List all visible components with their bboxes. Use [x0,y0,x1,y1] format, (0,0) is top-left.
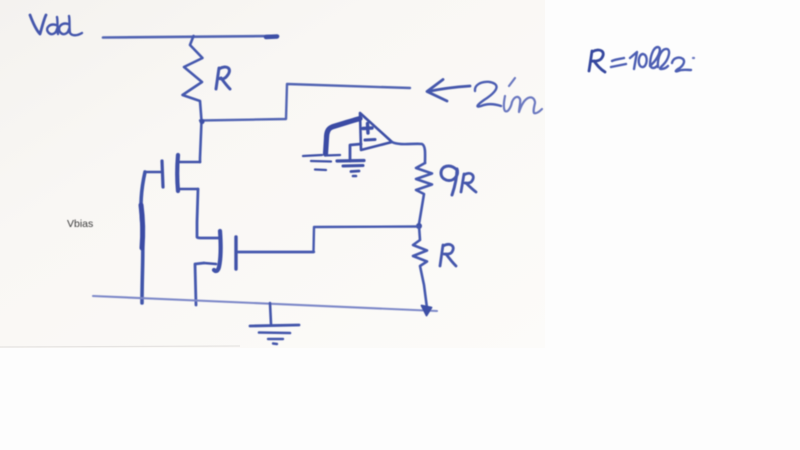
op-amp U1 [360,113,392,150]
resistor R2 [413,226,427,308]
resistor 9R [416,163,432,224]
paper bottom edge crease [0,346,240,347]
wire input node to Zin port [200,84,410,121]
node junction 9R/R2 [416,223,422,229]
label Zin [475,78,542,113]
Vbias wire [141,172,145,303]
wire R1 bottom to M1 drain [200,121,202,162]
transistor M1 [145,155,200,191]
annotation R = 10k ohm [589,47,694,72]
Vdd label [30,15,82,35]
wire op-amp noninverting input [326,119,361,155]
wire op-amp inverting input [350,144,361,161]
label R (R1 value) [216,67,230,89]
ground at inverting input [337,161,364,177]
wire op-amp output to 9R [392,142,425,163]
paper sheet [0,0,545,348]
arrow Zin [427,80,470,102]
label R (R2 value) [440,244,456,266]
ground symbol [250,303,299,344]
transistor M2 [204,231,314,271]
label 9R [441,166,476,195]
ground at noninverting input [303,155,340,170]
wire M1 source to M2 drain [197,189,219,238]
resistor R1 [183,36,203,121]
svg-text:Vbias: Vbias [67,218,93,230]
ground rail [93,296,437,311]
wire feedback node to M2 gate [238,227,418,253]
wire M2 source to ground rail [195,263,204,305]
Vdd rail [103,36,278,38]
wire R2 bottom arrowhead at rail [422,306,432,316]
